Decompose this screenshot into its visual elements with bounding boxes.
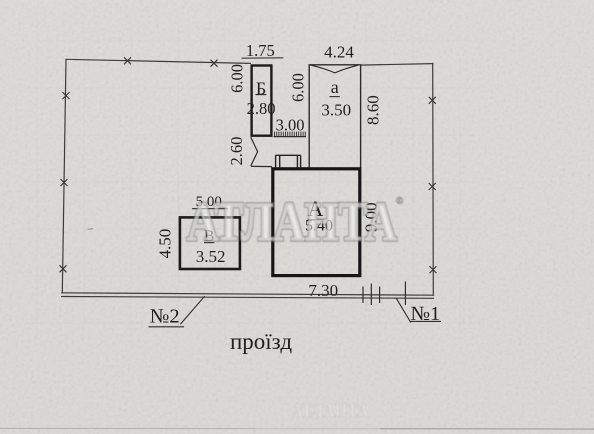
svg-text:4.50: 4.50 — [155, 229, 174, 259]
svg-text:4.24: 4.24 — [324, 43, 354, 62]
svg-text:®: ® — [396, 196, 404, 207]
svg-text:6.00: 6.00 — [289, 73, 308, 102]
svg-text:проїзд: проїзд — [230, 329, 292, 354]
svg-text:Б: Б — [256, 78, 266, 98]
svg-text:3.00: 3.00 — [276, 115, 305, 134]
svg-text:6.00: 6.00 — [228, 64, 247, 93]
svg-text:АТЛАНТА: АТЛАНТА — [291, 399, 368, 421]
svg-text:а: а — [331, 77, 339, 97]
svg-text:2.60: 2.60 — [227, 137, 246, 166]
svg-text:№1: №1 — [410, 303, 440, 325]
svg-text:2.80: 2.80 — [247, 99, 276, 118]
svg-text:№2: №2 — [150, 306, 180, 328]
svg-text:3.50: 3.50 — [321, 100, 351, 119]
svg-text:АТЛАНТА: АТЛАНТА — [187, 191, 397, 252]
svg-text:8.60: 8.60 — [364, 95, 383, 125]
svg-text:1.75: 1.75 — [246, 41, 275, 60]
svg-text:7.30: 7.30 — [308, 281, 338, 300]
